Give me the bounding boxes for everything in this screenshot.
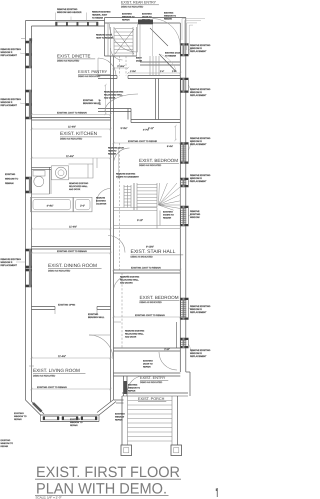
svg-text:2′-10″: 2′-10″ bbox=[164, 348, 170, 351]
svg-text:EXISTING: EXISTING bbox=[143, 360, 153, 363]
svg-text:REMOVE EXISTING: REMOVE EXISTING bbox=[190, 349, 211, 352]
svg-text:REMOVE DOOR: REMOVE DOOR bbox=[96, 34, 112, 37]
svg-text:REMOVE EXISTING: REMOVE EXISTING bbox=[116, 173, 136, 176]
svg-text:WINDOW R: WINDOW R bbox=[1, 261, 13, 264]
svg-text:EXIST. ENTRY: EXIST. ENTRY bbox=[140, 376, 166, 380]
svg-text:RELOCATED WALL: RELOCATED WALL bbox=[104, 94, 124, 97]
svg-text:HDW TO: HDW TO bbox=[108, 150, 117, 153]
svg-text:EXISTING: EXISTING bbox=[190, 213, 201, 216]
svg-text:EXIST: EXIST bbox=[136, 57, 143, 60]
svg-text:16′-8″: 16′-8″ bbox=[99, 99, 102, 105]
svg-text:EXISTING: EXISTING bbox=[14, 412, 24, 415]
svg-text:AND DOORS: AND DOORS bbox=[120, 282, 133, 285]
svg-text:REMOVE EXISTING: REMOVE EXISTING bbox=[190, 88, 211, 91]
svg-text:REPLACEMENT: REPLACEMENT bbox=[190, 355, 207, 358]
svg-text:DEMO AS INDICATED: DEMO AS INDICATED bbox=[139, 164, 162, 167]
svg-text:EXISTING: EXISTING bbox=[70, 418, 80, 421]
svg-text:HDW TO REMAIN: HDW TO REMAIN bbox=[96, 37, 114, 40]
svg-text:REPAIR: REPAIR bbox=[14, 418, 22, 421]
svg-text:5′-3½″: 5′-3½″ bbox=[121, 127, 128, 130]
svg-text:EXIST. DINING ROOM: EXIST. DINING ROOM bbox=[48, 263, 97, 269]
svg-text:2′-0″: 2′-0″ bbox=[80, 205, 85, 208]
svg-text:WINDOW TO: WINDOW TO bbox=[164, 14, 176, 17]
svg-text:REPAIR: REPAIR bbox=[1, 445, 9, 448]
svg-text:WINDOW TO: WINDOW TO bbox=[1, 442, 14, 445]
svg-text:EXISTING: EXISTING bbox=[88, 313, 99, 316]
svg-text:WINDOW TO: WINDOW TO bbox=[5, 177, 18, 180]
svg-text:AND DOOR: AND DOOR bbox=[69, 188, 81, 191]
svg-text:WINDOW R: WINDOW R bbox=[190, 308, 202, 311]
svg-text:REPLACEMENT: REPLACEMENT bbox=[1, 264, 18, 267]
svg-text:WINDOW R: WINDOW R bbox=[190, 47, 202, 50]
svg-text:REMOVE EXISTING: REMOVE EXISTING bbox=[190, 44, 211, 47]
svg-text:4′-7½″: 4′-7½″ bbox=[143, 129, 149, 132]
svg-text:RELOCATED WALL: RELOCATED WALL bbox=[125, 333, 145, 336]
svg-text:EXISTING: EXISTING bbox=[1, 439, 11, 442]
svg-text:WINDOW R: WINDOW R bbox=[190, 91, 202, 94]
svg-text:DEMO AS INDICATED: DEMO AS INDICATED bbox=[78, 75, 101, 78]
svg-text:REMOVE EXISTING: REMOVE EXISTING bbox=[190, 137, 211, 140]
svg-text:EXISTING DOOR: EXISTING DOOR bbox=[165, 52, 181, 55]
svg-text:EXISTING: EXISTING bbox=[122, 13, 132, 16]
svg-text:REMAIN: REMAIN bbox=[5, 182, 14, 185]
svg-text:11′-4½″: 11′-4½″ bbox=[69, 226, 77, 229]
svg-text:1′-3½″: 1′-3½″ bbox=[130, 70, 136, 73]
svg-text:EXISTING: EXISTING bbox=[128, 384, 138, 387]
svg-text:REMOVE EXISTING: REMOVE EXISTING bbox=[92, 11, 111, 14]
svg-text:EXIST. BEDROOM: EXIST. BEDROOM bbox=[140, 295, 179, 300]
svg-text:TO REMAIN: TO REMAIN bbox=[92, 16, 104, 19]
svg-text:11′-4½″: 11′-4½″ bbox=[68, 125, 76, 128]
svg-text:EXISTING: EXISTING bbox=[142, 13, 152, 16]
svg-text:REMOVE: REMOVE bbox=[96, 197, 106, 200]
svg-text:WINDOW TO: WINDOW TO bbox=[122, 16, 135, 19]
svg-text:REPAIR: REPAIR bbox=[70, 424, 78, 427]
svg-text:REMOVE EXISTING: REMOVE EXISTING bbox=[1, 258, 22, 261]
svg-text:3′-10″: 3′-10″ bbox=[137, 219, 143, 222]
svg-text:REPAIR: REPAIR bbox=[143, 366, 151, 369]
svg-text:REMOVE EXISTING: REMOVE EXISTING bbox=[125, 330, 145, 333]
svg-text:2′-10½″: 2′-10½″ bbox=[117, 65, 125, 68]
svg-text:DOOR TO: DOOR TO bbox=[143, 363, 153, 366]
svg-text:EXIST. PORCH: EXIST. PORCH bbox=[138, 397, 165, 401]
svg-text:REPLACEMENT: REPLACEMENT bbox=[190, 50, 207, 53]
svg-text:REMOVE EXISTING: REMOVE EXISTING bbox=[57, 8, 78, 11]
svg-text:EXISTING JOIST TO REMAIN: EXISTING JOIST TO REMAIN bbox=[135, 314, 165, 317]
svg-text:WINDOW R: WINDOW R bbox=[190, 352, 202, 355]
svg-text:REMAIN: REMAIN bbox=[164, 17, 172, 20]
svg-text:WINDOW TO: WINDOW TO bbox=[128, 386, 140, 389]
svg-text:EXISTING JOIST TO REMAIN: EXISTING JOIST TO REMAIN bbox=[131, 266, 161, 269]
svg-text:STAIRS TO: STAIRS TO bbox=[163, 214, 174, 217]
svg-text:WINDOW R: WINDOW R bbox=[190, 177, 202, 180]
svg-text:RELOCATED WALL: RELOCATED WALL bbox=[120, 279, 140, 282]
svg-text:EXIST. REAR ENTRY: EXIST. REAR ENTRY bbox=[121, 0, 157, 4]
svg-text:REMAIN: REMAIN bbox=[142, 19, 151, 22]
svg-text:WINDOW AND HEADER: WINDOW AND HEADER bbox=[57, 11, 82, 14]
svg-text:EXISTING: EXISTING bbox=[83, 99, 94, 102]
svg-text:REMOVE: REMOVE bbox=[190, 210, 200, 213]
svg-text:WINDOW TO: WINDOW TO bbox=[70, 421, 83, 424]
svg-text:EXIST. LIVING ROOM: EXIST. LIVING ROOM bbox=[33, 368, 80, 373]
svg-text:EXIST. BEDROOM: EXIST. BEDROOM bbox=[139, 158, 178, 163]
svg-text:REMOVE EXISTING: REMOVE EXISTING bbox=[1, 48, 22, 51]
svg-text:REMOVE EXISTING: REMOVE EXISTING bbox=[120, 276, 140, 279]
svg-text:RELOCATED WALL: RELOCATED WALL bbox=[69, 185, 89, 188]
svg-text:EXISTING: EXISTING bbox=[164, 12, 174, 15]
svg-text:EXISTING JOIST TO REMAIN: EXISTING JOIST TO REMAIN bbox=[37, 386, 67, 389]
svg-text:REMOVE EXISTING: REMOVE EXISTING bbox=[1, 98, 22, 101]
svg-text:DOOR: DOOR bbox=[136, 59, 143, 62]
svg-text:REPAIR: REPAIR bbox=[122, 19, 130, 22]
svg-text:REPLACEMENT: REPLACEMENT bbox=[1, 104, 18, 107]
svg-text:EXIST. PANTRY: EXIST. PANTRY bbox=[78, 69, 108, 74]
svg-text:BEARING WALL: BEARING WALL bbox=[88, 316, 105, 319]
svg-text:EXISTING JOIST TO REMAIN: EXISTING JOIST TO REMAIN bbox=[57, 250, 87, 253]
svg-text:DEMO AS INDICATED: DEMO AS INDICATED bbox=[121, 5, 144, 8]
svg-text:EXISTING JOIST TO REMAIN: EXISTING JOIST TO REMAIN bbox=[57, 111, 87, 114]
svg-text:EXIST. FIRST FLOOR: EXIST. FIRST FLOOR bbox=[36, 464, 180, 481]
svg-text:DEMO AS INDICATED: DEMO AS INDICATED bbox=[140, 301, 163, 304]
svg-text:EXIST. STAIR HALL: EXIST. STAIR HALL bbox=[131, 249, 176, 255]
svg-text:2′-4″: 2′-4″ bbox=[160, 70, 165, 73]
svg-text:EXIST. KITCHEN: EXIST. KITCHEN bbox=[60, 131, 98, 137]
svg-text:EXISTING: EXISTING bbox=[96, 200, 106, 203]
svg-text:SCALE: 1/4″ = 1′-0″: SCALE: 1/4″ = 1′-0″ bbox=[36, 495, 62, 499]
svg-text:EXISTING: EXISTING bbox=[115, 413, 125, 416]
svg-text:AND DOOR: AND DOOR bbox=[104, 97, 116, 100]
svg-text:REPLACEMENT: REPLACEMENT bbox=[190, 94, 207, 97]
svg-text:DEMO AS INDICATED: DEMO AS INDICATED bbox=[48, 269, 71, 272]
svg-text:REMOVE EXISTING: REMOVE EXISTING bbox=[69, 182, 89, 185]
svg-text:EXISTING OPNG: EXISTING OPNG bbox=[58, 303, 76, 306]
svg-text:REPLACEMENT: REPLACEMENT bbox=[1, 54, 18, 57]
svg-text:REMOVE EXISTING: REMOVE EXISTING bbox=[190, 174, 211, 177]
svg-text:REPLACEMENT: REPLACEMENT bbox=[190, 180, 207, 183]
svg-text:DEMO AS INDICATED: DEMO AS INDICATED bbox=[60, 138, 83, 141]
svg-text:TO REMAIN: TO REMAIN bbox=[165, 54, 177, 57]
svg-text:DEMO AS INDICATED: DEMO AS INDICATED bbox=[140, 381, 163, 384]
svg-text:2′-6″: 2′-6″ bbox=[172, 70, 177, 73]
svg-text:WINDOW TO: WINDOW TO bbox=[14, 415, 27, 418]
svg-text:EXISTING: EXISTING bbox=[5, 173, 16, 176]
svg-text:9′-10½″: 9′-10½″ bbox=[146, 245, 154, 248]
svg-text:REPLACEMENT: REPLACEMENT bbox=[190, 143, 207, 146]
svg-text:STAIRS TO BASEMENT: STAIRS TO BASEMENT bbox=[116, 176, 139, 179]
svg-text:11′-4½″: 11′-4½″ bbox=[66, 155, 74, 158]
svg-text:WINDOW: WINDOW bbox=[115, 416, 124, 419]
svg-text:DEMO AS INDICATED: DEMO AS INDICATED bbox=[57, 60, 80, 63]
svg-text:EXISTING JOIST TO REPAIR: EXISTING JOIST TO REPAIR bbox=[128, 140, 158, 143]
svg-text:EXISTING: EXISTING bbox=[163, 211, 173, 214]
svg-text:REMAIN: REMAIN bbox=[108, 153, 117, 156]
svg-text:8′-4½″: 8′-4½″ bbox=[167, 145, 173, 148]
svg-text:WINDOW R: WINDOW R bbox=[1, 101, 13, 104]
svg-text:REPAIR: REPAIR bbox=[115, 419, 123, 422]
svg-text:DEMO AS INDICATED: DEMO AS INDICATED bbox=[33, 374, 56, 377]
svg-text:DEMO AS INDICATED: DEMO AS INDICATED bbox=[131, 256, 154, 259]
svg-text:REMOVE EXISTING: REMOVE EXISTING bbox=[104, 91, 124, 94]
svg-text:COUNTER: COUNTER bbox=[96, 203, 107, 206]
svg-text:REPLACEMENT: REPLACEMENT bbox=[190, 311, 207, 314]
svg-text:AND DOOR: AND DOOR bbox=[125, 336, 137, 339]
svg-text:WINDOW R: WINDOW R bbox=[190, 140, 202, 143]
svg-text:EXIST. DINETTE: EXIST. DINETTE bbox=[57, 53, 90, 58]
svg-text:REPAIR: REPAIR bbox=[128, 389, 136, 392]
svg-text:REMAIN: REMAIN bbox=[163, 217, 172, 220]
svg-text:11′-4½″: 11′-4½″ bbox=[58, 355, 66, 358]
svg-text:WINDOW R: WINDOW R bbox=[1, 51, 13, 54]
svg-text:4′-4½″: 4′-4½″ bbox=[47, 205, 54, 208]
svg-text:REMOVE EXISTING: REMOVE EXISTING bbox=[190, 305, 211, 308]
svg-text:REMOVE DOOR: REMOVE DOOR bbox=[108, 147, 124, 150]
svg-text:WINDOW: WINDOW bbox=[190, 216, 201, 219]
svg-text:DOOR TO: DOOR TO bbox=[142, 16, 152, 19]
svg-text:HEADER, JOIST: HEADER, JOIST bbox=[92, 13, 108, 16]
